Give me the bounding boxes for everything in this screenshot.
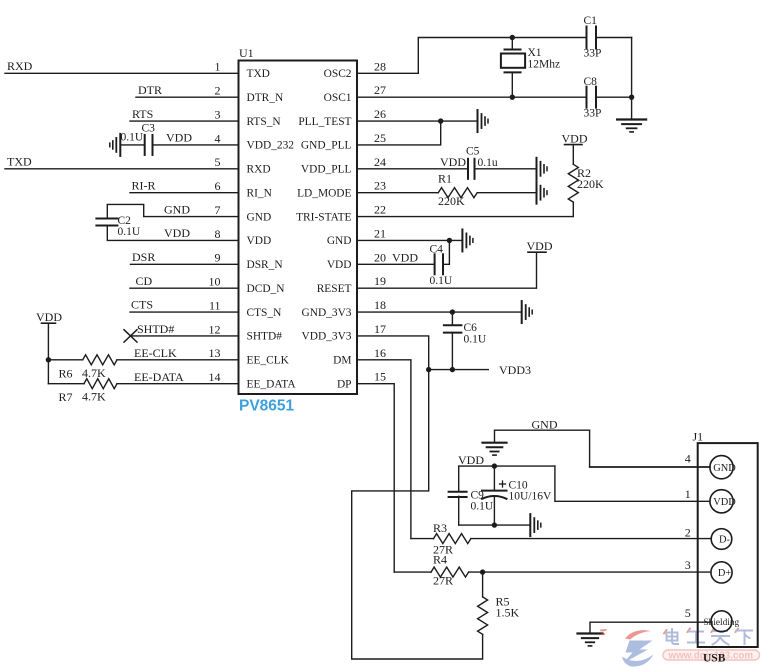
svg-text:J1: J1 xyxy=(693,429,704,443)
ground sideways at pin 21 xyxy=(462,229,473,251)
capacitor C2 xyxy=(96,219,117,226)
junction dot crystal top xyxy=(510,35,515,40)
svg-text:26: 26 xyxy=(374,107,386,121)
wire pin 24 VDD_PLL to C5 xyxy=(357,168,468,170)
wire VDD3 rail xyxy=(429,369,489,371)
svg-text:12: 12 xyxy=(209,322,221,336)
wire pin 16 DM down to R3 xyxy=(357,360,411,539)
resistor R3 value 27R xyxy=(433,542,453,556)
wire VDD down to R6 R7 xyxy=(47,323,49,383)
node SHTD# label xyxy=(137,322,174,336)
capacitor C10 polarized xyxy=(482,466,507,525)
wire GND rail xyxy=(495,430,710,467)
power VDD symbol at pin 19 xyxy=(527,239,553,253)
capacitor C8 value 33P xyxy=(584,108,602,120)
wire pin 17 VDD_3V3 down xyxy=(357,336,429,370)
node CD label xyxy=(136,274,153,288)
svg-text:4.7K: 4.7K xyxy=(82,366,106,380)
svg-text:OSC2: OSC2 xyxy=(324,68,352,80)
wire RTS to pin 3 xyxy=(130,120,239,122)
svg-text:VDD: VDD xyxy=(458,453,484,467)
resistor R5 label xyxy=(496,594,510,608)
node EE-CLK label xyxy=(134,346,177,360)
junction dot VDD rail xyxy=(492,463,497,468)
wire DM to R3 xyxy=(411,538,434,540)
svg-text:R7: R7 xyxy=(59,390,73,404)
svg-text:0.1u: 0.1u xyxy=(478,157,498,169)
wire J1 shielding to ground xyxy=(590,622,711,633)
svg-text:3: 3 xyxy=(215,107,221,121)
resistor R2 label xyxy=(577,166,591,180)
svg-text:PV8651: PV8651 xyxy=(239,398,295,415)
svg-text:GND: GND xyxy=(247,211,272,223)
svg-text:DSR_N: DSR_N xyxy=(247,259,283,271)
svg-text:CTS_N: CTS_N xyxy=(247,307,282,319)
svg-text:GND: GND xyxy=(532,417,558,431)
wire R6 to pin 13 xyxy=(117,359,239,361)
wire pin 27 OSC1 to C8 xyxy=(357,96,587,98)
node GND label at pin 7 xyxy=(164,202,190,216)
connector J1 reference xyxy=(693,429,704,443)
svg-text:2: 2 xyxy=(685,526,691,540)
junction dot crystal bottom xyxy=(510,94,515,99)
svg-text:USB: USB xyxy=(703,653,726,665)
svg-text:EE-DATA: EE-DATA xyxy=(134,370,184,384)
IC U1 reference designator xyxy=(239,46,254,60)
svg-text:6: 6 xyxy=(215,179,221,193)
svg-text:GND_PLL: GND_PLL xyxy=(301,140,352,152)
svg-text:10U/16V: 10U/16V xyxy=(509,490,553,502)
connector J1 pin 4 wire xyxy=(590,466,710,468)
svg-text:14: 14 xyxy=(209,370,221,384)
power VDD label bottom xyxy=(458,453,484,467)
wire pin 19 RESET to VDD xyxy=(357,252,537,288)
svg-text:RXD: RXD xyxy=(7,59,33,73)
capacitor C8 xyxy=(587,87,597,108)
svg-text:TXD: TXD xyxy=(247,68,270,80)
wire DSR to pin 9 xyxy=(131,263,239,265)
capacitor C1 xyxy=(587,27,597,49)
wire R4 to J1 D+ xyxy=(469,571,711,573)
node GND label top xyxy=(532,417,558,431)
svg-text:VDD_232: VDD_232 xyxy=(247,140,295,152)
svg-text:2: 2 xyxy=(215,84,221,98)
svg-text:0.1U: 0.1U xyxy=(121,132,144,144)
node RXD label xyxy=(7,59,33,73)
resistor R7 xyxy=(84,379,117,389)
svg-text:C6: C6 xyxy=(464,322,478,334)
node TXD label xyxy=(7,155,32,169)
wire VDD rail bottom xyxy=(459,465,555,467)
svg-text:VDD3: VDD3 xyxy=(499,363,531,377)
connector J1 pin number 5 xyxy=(685,606,691,620)
svg-text:VDD: VDD xyxy=(247,235,272,247)
capacitor C3 xyxy=(145,135,153,155)
wire R4 node down to R5 xyxy=(482,572,484,597)
svg-text:5: 5 xyxy=(685,606,691,620)
ground sideways at pin 23 xyxy=(537,182,548,204)
svg-text:9: 9 xyxy=(215,251,221,265)
svg-text:PLL_TEST: PLL_TEST xyxy=(298,116,351,128)
junction dot VDD R6 xyxy=(46,357,51,362)
svg-text:33P: 33P xyxy=(584,108,602,120)
svg-text:CTS: CTS xyxy=(131,298,153,312)
wire C3 to pin 4 xyxy=(153,144,239,146)
resistor R6 xyxy=(83,355,117,365)
resistor R1 label xyxy=(438,171,452,185)
wire SHTD# to pin 12 xyxy=(131,335,239,337)
svg-text:DP: DP xyxy=(337,378,352,390)
svg-text:D+: D+ xyxy=(718,568,732,579)
svg-text:C3: C3 xyxy=(142,123,156,135)
capacitor C1 label xyxy=(584,15,598,27)
wire right rail down to ground xyxy=(631,38,633,120)
connector J1 pin 2 circle D- xyxy=(711,529,732,550)
wire ground to C3 xyxy=(120,144,144,146)
resistor R6 label xyxy=(59,366,73,380)
svg-text:C8: C8 xyxy=(584,76,598,88)
wire pin 7 GND to C2 top xyxy=(107,204,238,218)
capacitor C9 xyxy=(449,466,467,525)
junction dot C6 bottom xyxy=(450,367,455,372)
svg-text:22: 22 xyxy=(374,203,386,217)
svg-text:R3: R3 xyxy=(433,521,447,535)
svg-text:5: 5 xyxy=(215,155,221,169)
connector J1 pin 5 circle Shielding xyxy=(704,611,740,632)
capacitor C2 value 0.1U xyxy=(118,226,141,238)
wire RI-R to pin 6 xyxy=(130,192,239,194)
svg-text:C4: C4 xyxy=(430,243,444,255)
svg-text:0.1U: 0.1U xyxy=(471,500,494,512)
svg-text:D-: D- xyxy=(719,535,731,546)
resistor R5 value 1.5K xyxy=(496,606,520,620)
resistor R4 value 27R xyxy=(433,574,453,588)
connector J1 body xyxy=(698,443,758,647)
svg-text:VDD: VDD xyxy=(562,131,588,145)
wire pin 21 GND to ground xyxy=(357,239,462,241)
svg-text:CD: CD xyxy=(136,274,153,288)
resistor R2 value 220K xyxy=(577,177,604,191)
svg-text:GND: GND xyxy=(327,235,352,247)
wire pin 20 VDD to C4 xyxy=(357,263,435,265)
wire pin 23 LD_MODE to R1 xyxy=(357,192,438,194)
junction dot pin 18 xyxy=(450,309,455,314)
wire DTR to pin 2 xyxy=(136,96,239,98)
watermark logo and text xyxy=(600,628,760,667)
svg-text:1: 1 xyxy=(215,60,221,74)
svg-text:0.1U: 0.1U xyxy=(118,226,141,238)
svg-text:220K: 220K xyxy=(438,194,465,208)
svg-text:RI_N: RI_N xyxy=(247,187,272,199)
node DSR label xyxy=(132,250,155,264)
svg-text:4: 4 xyxy=(685,452,691,466)
capacitor C5 label xyxy=(466,145,480,157)
wire R7 to pin 14 xyxy=(117,383,239,385)
power VDD symbol left xyxy=(36,310,62,324)
svg-text:10: 10 xyxy=(209,275,221,289)
ground sideways at pin 24 xyxy=(537,158,548,180)
node RI-R label xyxy=(132,178,156,192)
svg-text:GND: GND xyxy=(164,202,190,216)
svg-text:R4: R4 xyxy=(433,552,447,566)
svg-text:Shielding: Shielding xyxy=(704,618,740,628)
svg-text:4.7K: 4.7K xyxy=(82,389,106,403)
connector J1 pin number 3 xyxy=(685,558,691,572)
junction dot VDD3 corner xyxy=(426,367,431,372)
wire C5 to ground xyxy=(475,168,537,170)
wire C1 to right rail xyxy=(596,37,632,39)
svg-text:1.5K: 1.5K xyxy=(496,606,520,620)
node VDD3 label xyxy=(499,363,531,377)
capacitor C9 value 0.1U xyxy=(471,500,494,512)
capacitor C4 label xyxy=(430,243,444,255)
wire CD to pin 10 xyxy=(130,287,239,289)
connector J1 pin 1 circle VDD xyxy=(710,490,736,513)
capacitor C6 label xyxy=(464,322,478,334)
node VDD label at pin 24 xyxy=(440,155,466,169)
svg-text:VDD_PLL: VDD_PLL xyxy=(301,164,352,176)
svg-text:25: 25 xyxy=(374,131,386,145)
capacitor C8 label xyxy=(584,76,598,88)
svg-text:C5: C5 xyxy=(466,145,480,157)
svg-text:EE_DATA: EE_DATA xyxy=(247,378,297,390)
node VDD label at pin 4 xyxy=(166,131,192,145)
svg-text:27: 27 xyxy=(374,83,386,97)
svg-text:17: 17 xyxy=(374,322,386,336)
svg-text:SHTD#: SHTD# xyxy=(247,331,283,343)
ground sideways at pin 18 xyxy=(522,301,533,323)
IC U1 right pin names xyxy=(296,68,352,390)
svg-text:19: 19 xyxy=(374,274,386,288)
svg-text:RTS_N: RTS_N xyxy=(247,116,281,128)
wire R3 to J1 D- xyxy=(471,538,711,540)
connector J1 pin number 4 xyxy=(685,452,691,466)
svg-text:VDD: VDD xyxy=(164,226,190,240)
node RTS label xyxy=(132,107,153,121)
svg-text:DTR: DTR xyxy=(138,83,162,97)
node CTS label xyxy=(131,298,153,312)
resistor R2 xyxy=(568,164,578,202)
svg-text:12Mhz: 12Mhz xyxy=(528,59,561,71)
svg-text:SHTD#: SHTD# xyxy=(137,322,174,336)
connector J1 USB label xyxy=(703,653,726,665)
IC U1 part number label xyxy=(239,398,295,415)
svg-text:GND_3V3: GND_3V3 xyxy=(302,307,352,319)
resistor R7 value 4.7K xyxy=(82,389,106,403)
wire C2 bottom to pin 8 VDD xyxy=(107,226,238,241)
wire DP to R4 xyxy=(394,571,431,573)
IC U1 left pin names xyxy=(247,68,297,390)
svg-text:DTR_N: DTR_N xyxy=(247,92,284,104)
ground symbol below GND label xyxy=(483,443,507,455)
svg-text:X1: X1 xyxy=(528,47,542,59)
wire pin 28 OSC2 up to crystal rail xyxy=(357,38,587,74)
junction dot pin 21 xyxy=(447,238,452,243)
node DTR label xyxy=(138,83,162,97)
resistor R5 xyxy=(478,597,488,634)
wire R1 to ground xyxy=(477,192,536,194)
svg-text:OSC1: OSC1 xyxy=(324,92,352,104)
wire VDD rail to J1 VDD xyxy=(555,466,710,501)
connector J1 pin number 2 xyxy=(685,526,691,540)
svg-text:4: 4 xyxy=(215,131,221,145)
capacitor C3 label xyxy=(142,123,156,135)
svg-text:VDD: VDD xyxy=(36,310,62,324)
svg-text:R1: R1 xyxy=(438,171,452,185)
svg-text:VDD: VDD xyxy=(527,239,553,253)
svg-text:20: 20 xyxy=(374,250,386,264)
wire VDD to R6 xyxy=(48,359,82,361)
connector J1 pin number 1 xyxy=(685,487,691,501)
crystal X1 value 12Mhz xyxy=(528,59,561,71)
capacitor C4 xyxy=(435,254,443,274)
svg-text:21: 21 xyxy=(374,226,386,240)
svg-text:27R: 27R xyxy=(433,574,453,588)
svg-text:16: 16 xyxy=(374,346,386,360)
no-connect X mark at pin 12 xyxy=(124,330,137,342)
wire VDD to R7 xyxy=(48,383,84,385)
wire R2 to pin 22 xyxy=(572,202,574,216)
svg-text:RI-R: RI-R xyxy=(132,178,156,192)
wire pin 22 TRI-STATE xyxy=(357,216,573,218)
resistor R4 xyxy=(431,567,469,577)
ground sideways at bottom rail xyxy=(530,514,541,536)
capacitor C6 value 0.1U xyxy=(464,333,487,345)
capacitor C2 label xyxy=(118,215,132,227)
capacitor C10 value 10U/16V xyxy=(509,490,553,502)
svg-text:TRI-STATE: TRI-STATE xyxy=(296,211,351,223)
power VDD symbol at R2 xyxy=(562,131,588,145)
resistor R4 label xyxy=(433,552,447,566)
junction dot R4 R5 xyxy=(480,569,485,574)
ground sideways at pin 26 xyxy=(478,110,489,132)
svg-text:13: 13 xyxy=(209,346,221,360)
wire VDD3 down around to R5 xyxy=(352,370,483,659)
svg-text:220K: 220K xyxy=(577,177,604,191)
capacitor C10 label xyxy=(509,480,528,492)
wire pin 25 GND_PLL xyxy=(357,121,441,145)
IC U1 left pin numbers 1-14 xyxy=(209,60,221,384)
svg-text:VDD: VDD xyxy=(327,259,352,271)
ground symbol bottom xyxy=(578,634,603,646)
svg-text:RTS: RTS xyxy=(132,107,153,121)
svg-text:R6: R6 xyxy=(59,366,73,380)
capacitor C9 label xyxy=(471,490,485,502)
svg-text:EE_CLK: EE_CLK xyxy=(247,355,290,367)
resistor R6 value 4.7K xyxy=(82,366,106,380)
wire pin 26 PLL_TEST to ground xyxy=(357,120,478,122)
svg-text:0.1U: 0.1U xyxy=(464,333,487,345)
svg-text:11: 11 xyxy=(209,298,221,312)
svg-text:DSR: DSR xyxy=(132,250,155,264)
svg-text:VDD: VDD xyxy=(713,497,736,508)
wire VDD to R2 xyxy=(572,145,574,165)
wire C8 to right rail xyxy=(596,96,632,98)
connector J1 pin 3 circle D+ xyxy=(711,562,732,583)
resistor R7 label xyxy=(59,390,73,404)
svg-text:EE-CLK: EE-CLK xyxy=(134,346,177,360)
connector J1 pin 4 circle GND xyxy=(710,456,736,479)
IC U1 right pin numbers 28-15 xyxy=(374,59,386,383)
svg-text:0.1U: 0.1U xyxy=(430,275,453,287)
svg-text:23: 23 xyxy=(374,179,386,193)
crystal X1 label xyxy=(528,47,542,59)
wire C9 C10 bottom rail xyxy=(459,524,531,526)
IC U1 PV8651 body xyxy=(239,61,358,395)
capacitor C5 value 0.1u xyxy=(478,157,498,169)
svg-text:DCD_N: DCD_N xyxy=(247,283,285,295)
junction dot right rail xyxy=(629,94,634,99)
svg-text:RXD: RXD xyxy=(247,164,271,176)
capacitor C1 value 33P xyxy=(584,47,602,59)
wire CTS to pin 11 xyxy=(130,311,239,313)
ground symbol top right xyxy=(617,120,646,132)
wire pin 15 DP down to R4 xyxy=(357,384,394,572)
svg-text:7: 7 xyxy=(215,203,221,217)
capacitor C10 plus sign xyxy=(500,481,506,487)
svg-text:RESET: RESET xyxy=(317,283,352,295)
svg-text:VDD: VDD xyxy=(166,131,192,145)
svg-text:VDD_3V3: VDD_3V3 xyxy=(302,331,352,343)
svg-text:3: 3 xyxy=(685,558,691,572)
wire C4 up to pin 21 xyxy=(443,240,449,264)
capacitor C3 value 0.1U xyxy=(121,132,144,144)
svg-text:GND: GND xyxy=(713,463,736,474)
svg-text:33P: 33P xyxy=(584,47,602,59)
resistor R3 xyxy=(434,534,471,544)
resistor R1 xyxy=(438,188,477,198)
svg-text:LD_MODE: LD_MODE xyxy=(297,187,351,199)
svg-text:U1: U1 xyxy=(239,46,254,60)
capacitor C4 value 0.1U xyxy=(430,275,453,287)
wire TXD to pin 5 xyxy=(5,168,239,170)
node VDD label at pin 20 xyxy=(392,250,418,264)
capacitor C6 xyxy=(444,312,462,370)
svg-text:8: 8 xyxy=(215,227,221,241)
wire pin 18 GND_3V3 to ground xyxy=(357,311,522,313)
svg-text:1: 1 xyxy=(685,487,691,501)
svg-text:28: 28 xyxy=(374,59,386,73)
node EE-DATA label xyxy=(134,370,184,384)
capacitor C5 xyxy=(468,159,475,179)
svg-text:VDD: VDD xyxy=(440,155,466,169)
junction dot bottom rail xyxy=(492,522,497,527)
svg-text:VDD: VDD xyxy=(392,250,418,264)
junction dot pin 26 xyxy=(438,118,443,123)
svg-text:15: 15 xyxy=(374,370,386,384)
node VDD label at pin 8 xyxy=(164,226,190,240)
svg-text:C1: C1 xyxy=(584,15,598,27)
resistor R3 label xyxy=(433,521,447,535)
wire RXD to pin 1 xyxy=(5,72,239,74)
crystal X1 xyxy=(501,38,525,98)
svg-text:24: 24 xyxy=(374,155,386,169)
ground sideways at C3 xyxy=(110,134,121,156)
svg-text:DM: DM xyxy=(333,355,351,367)
svg-text:TXD: TXD xyxy=(7,155,32,169)
resistor R1 value 220K xyxy=(438,194,465,208)
svg-text:18: 18 xyxy=(374,298,386,312)
